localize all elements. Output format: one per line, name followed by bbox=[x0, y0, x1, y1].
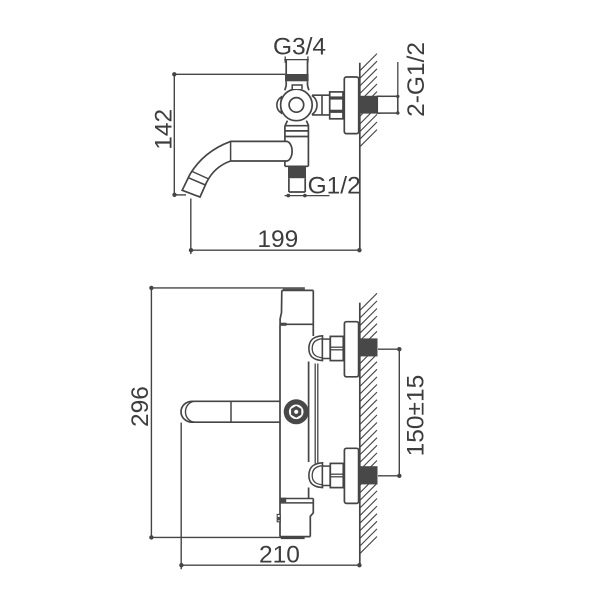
upper wall fitting dark rect bbox=[360, 338, 378, 356]
right ring joint bbox=[312, 95, 317, 114]
upper hex nut bbox=[330, 336, 343, 360]
bracket lines between elbows bbox=[315, 364, 318, 464]
diverter nub bbox=[277, 514, 280, 521]
lower body divider double line bbox=[280, 499, 313, 503]
top notch bbox=[292, 85, 302, 89]
dimension 296 extension top bbox=[151, 288, 304, 538]
dimension G3/4 end ticks bbox=[284, 56, 286, 62]
dimension 142 dots bbox=[172, 72, 176, 76]
G1/2 tick line bbox=[285, 195, 330, 197]
valve inner circle bbox=[289, 98, 304, 113]
valve neck below band bbox=[285, 81, 309, 90]
inlet thread dark band G3/4 bbox=[285, 74, 309, 81]
svg-text:296: 296 bbox=[127, 386, 154, 427]
spout outer cap bbox=[181, 401, 192, 422]
outlet thread dark band G1/2 bbox=[288, 166, 306, 178]
valve body circle bbox=[281, 89, 313, 121]
lower wall fitting dark rect bbox=[360, 466, 378, 484]
body top cap bbox=[283, 288, 305, 291]
wall flange (side view) bbox=[344, 77, 358, 134]
svg-text:142: 142 bbox=[150, 109, 177, 150]
upper wall flange bbox=[344, 322, 358, 377]
dimension 142 line bbox=[173, 74, 175, 195]
dimension G3/4 line bbox=[284, 59, 309, 61]
wall hatching (side view) bbox=[360, 54, 377, 147]
upper elbow bbox=[309, 336, 323, 361]
svg-text:199: 199 bbox=[257, 226, 298, 253]
spout (side view) bbox=[182, 141, 292, 197]
dimension 296 extension bottom bbox=[151, 536, 281, 538]
collar lines bbox=[285, 130, 309, 132]
neck to wall connector bbox=[312, 95, 330, 115]
supply stub pipe bbox=[377, 96, 398, 113]
nozzle separator lines bbox=[188, 171, 209, 185]
dimension 199 extension left bbox=[190, 199, 192, 255]
dimension 296 line bbox=[150, 288, 152, 538]
dimension 210 extension left bbox=[180, 423, 182, 570]
wall line (side view) bbox=[359, 63, 361, 250]
dimension 199 line bbox=[191, 249, 360, 251]
divider dark square bbox=[280, 323, 287, 326]
spout inner cap arc bbox=[185, 401, 195, 422]
spout divider bbox=[230, 401, 232, 422]
wall line (front view) bbox=[359, 303, 361, 566]
lower tube flare bbox=[285, 121, 309, 167]
body left edge bbox=[279, 324, 281, 536]
outlet pipe bbox=[289, 178, 305, 192]
leader line 2-G1/2 bbox=[397, 62, 399, 113]
svg-text:G1/2: G1/2 bbox=[308, 172, 361, 199]
upper cylinder bbox=[322, 339, 330, 358]
body (front view) bbox=[280, 290, 313, 536]
lower elbow bbox=[309, 463, 323, 488]
dimension 210 line bbox=[181, 564, 359, 566]
inlet pipe top bbox=[286, 60, 307, 75]
wall hatching (front view) bbox=[360, 293, 377, 553]
svg-text:2-G1/2: 2-G1/2 bbox=[403, 42, 430, 117]
spout divider bbox=[230, 141, 232, 161]
tube edges bbox=[284, 126, 286, 141]
spout bar (front view) bbox=[181, 401, 280, 422]
lower hex nut bbox=[330, 463, 343, 487]
hex nut bbox=[330, 92, 343, 119]
dimension 150±15 extensions bbox=[378, 349, 402, 476]
lower divider dark square bbox=[280, 498, 286, 503]
nut facet bands bbox=[330, 98, 343, 111]
lower body section bbox=[280, 499, 313, 539]
body divider line bbox=[280, 323, 313, 325]
dimension 142 extension bottom bbox=[174, 194, 186, 196]
lower cylinder bbox=[322, 466, 330, 485]
left port bump bbox=[277, 97, 281, 113]
fitting edge overshoots bbox=[377, 96, 381, 113]
body right edge segments bbox=[308, 362, 310, 463]
wall fitting dark rect bbox=[360, 96, 378, 114]
handle knob bbox=[284, 399, 309, 424]
lower wall flange bbox=[344, 448, 358, 503]
dimension 142 extension top bbox=[174, 74, 286, 195]
dimension 150±15 line bbox=[398, 349, 400, 476]
svg-text:210: 210 bbox=[259, 541, 300, 568]
svg-text:150±15: 150±15 bbox=[402, 375, 429, 457]
svg-text:G3/4: G3/4 bbox=[273, 34, 326, 61]
